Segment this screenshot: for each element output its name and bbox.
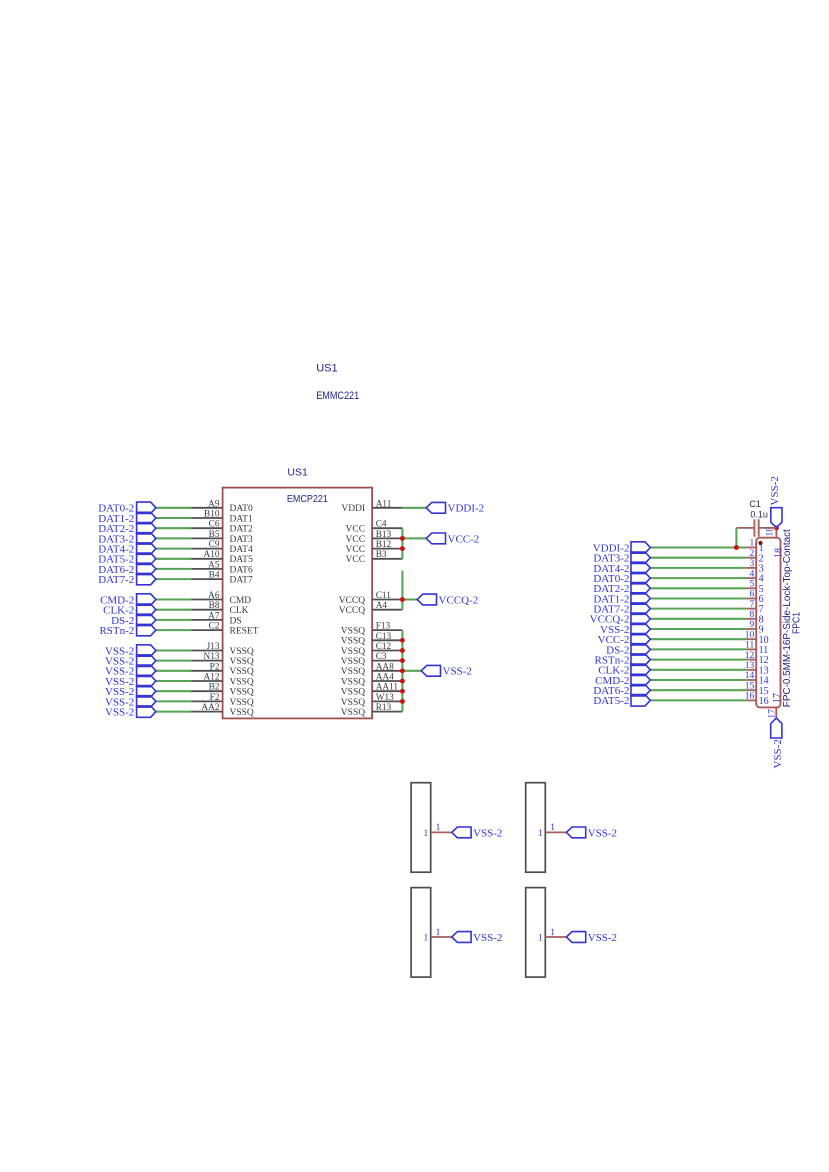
wire net DAT7-2 to pin B4 bbox=[156, 578, 192, 580]
net flag VCC-2 bbox=[426, 533, 445, 544]
svg-text:1: 1 bbox=[550, 928, 555, 938]
svg-text:0.1u: 0.1u bbox=[750, 510, 768, 520]
svg-text:VSSQ: VSSQ bbox=[341, 627, 365, 637]
svg-text:6: 6 bbox=[750, 590, 755, 600]
net flag DAT5-2 bbox=[137, 553, 156, 565]
mounting hole H3 body bbox=[411, 888, 431, 978]
svg-text:7: 7 bbox=[750, 600, 755, 610]
net flag DAT0-2 bbox=[631, 572, 650, 583]
svg-text:VSS-2: VSS-2 bbox=[588, 932, 617, 944]
svg-text:DAT7: DAT7 bbox=[230, 576, 253, 586]
wire net DAT6-2 to pin A5 bbox=[156, 568, 192, 570]
pin B3 (VCC) of US1 bbox=[372, 558, 402, 560]
pin 1 of H2 bbox=[545, 831, 566, 833]
wire net RSTn-2 to FPC1 pin 12 bbox=[650, 659, 746, 661]
svg-text:1: 1 bbox=[538, 829, 543, 839]
pin W13 (VSSQ) of US1 bbox=[372, 700, 402, 702]
pin 15 of FPC1 bbox=[746, 689, 756, 691]
pin A6 (CMD) of US1 bbox=[192, 599, 223, 601]
pin C2 (RESET) of US1 bbox=[192, 629, 223, 631]
svg-text:CMD: CMD bbox=[230, 596, 252, 606]
wire net RSTn-2 to pin C2 bbox=[156, 629, 192, 631]
net flag VSS-2 bbox=[452, 827, 471, 838]
pin B12 (VCC) of US1 bbox=[372, 548, 402, 550]
svg-text:B5: B5 bbox=[209, 530, 220, 540]
svg-text:VSS-2: VSS-2 bbox=[473, 827, 502, 839]
svg-text:9: 9 bbox=[750, 620, 755, 630]
pin B2 (VSSQ) of US1 bbox=[192, 690, 223, 692]
svg-text:VCCQ-2: VCCQ-2 bbox=[439, 594, 479, 606]
svg-text:VSSQ: VSSQ bbox=[230, 667, 254, 677]
svg-text:B13: B13 bbox=[376, 530, 392, 540]
svg-text:A11: A11 bbox=[376, 499, 392, 509]
svg-text:DAT2: DAT2 bbox=[230, 525, 253, 535]
net flag DAT7-2 bbox=[631, 603, 650, 614]
net flag DAT0-2 bbox=[137, 502, 156, 513]
net flag VDDI-2 bbox=[426, 502, 445, 513]
svg-text:VSSQ: VSSQ bbox=[341, 708, 365, 718]
svg-text:VSS-2: VSS-2 bbox=[105, 707, 134, 719]
pin B5 (DAT3) of US1 bbox=[192, 537, 223, 539]
svg-text:A9: A9 bbox=[208, 499, 220, 509]
pin 5 of FPC1 bbox=[746, 587, 756, 589]
svg-text:W13: W13 bbox=[376, 693, 394, 703]
svg-text:C11: C11 bbox=[376, 591, 392, 601]
svg-text:VCC-2: VCC-2 bbox=[448, 533, 480, 545]
svg-text:DAT3: DAT3 bbox=[230, 535, 253, 545]
svg-text:R13: R13 bbox=[376, 703, 392, 713]
pin B10 (DAT1) of US1 bbox=[192, 517, 223, 519]
wire net DAT2-2 to FPC1 pin 5 bbox=[650, 587, 746, 589]
svg-text:2: 2 bbox=[750, 549, 755, 559]
net flag VSS-2 bbox=[137, 696, 156, 707]
pin C13 (VSSQ) of US1 bbox=[372, 639, 402, 641]
svg-text:A10: A10 bbox=[203, 550, 219, 560]
svg-text:1: 1 bbox=[750, 539, 755, 549]
svg-text:FPC1: FPC1 bbox=[791, 612, 803, 634]
net flag DAT6-2 bbox=[631, 685, 650, 696]
wire net VCC-2 bbox=[402, 537, 426, 539]
svg-text:3: 3 bbox=[750, 559, 755, 569]
svg-text:C9: C9 bbox=[209, 540, 220, 550]
wire net DAT5-2 to pin A10 bbox=[156, 558, 192, 560]
svg-text:DAT4: DAT4 bbox=[230, 545, 253, 555]
wire net DAT4-2 to FPC1 pin 3 bbox=[650, 567, 746, 569]
junction on pin C11 bbox=[400, 597, 405, 602]
pin 10 of FPC1 bbox=[746, 638, 756, 640]
svg-text:VCC: VCC bbox=[346, 535, 366, 545]
net flag CMD-2 bbox=[631, 674, 650, 685]
svg-text:VSSQ: VSSQ bbox=[341, 698, 365, 708]
mounting hole H2 body bbox=[526, 783, 546, 873]
svg-text:N13: N13 bbox=[203, 652, 219, 662]
junction at pin 18 bbox=[774, 525, 779, 530]
net flag VCCQ-2 bbox=[631, 613, 650, 624]
svg-text:AA4: AA4 bbox=[376, 673, 394, 683]
pin B4 (DAT7) of US1 bbox=[192, 578, 223, 580]
svg-text:VCC: VCC bbox=[346, 525, 366, 535]
wire VCC vertical bus bbox=[401, 528, 403, 559]
pin 14 of FPC1 bbox=[746, 679, 756, 681]
svg-text:US1: US1 bbox=[287, 467, 308, 479]
pin A5 (DAT6) of US1 bbox=[192, 568, 223, 570]
net flag RSTn-2 bbox=[631, 654, 650, 665]
pin C4 (VCC) of US1 bbox=[372, 527, 402, 529]
svg-text:A7: A7 bbox=[208, 611, 220, 621]
svg-text:A12: A12 bbox=[203, 673, 219, 683]
wire net DS-2 to pin A7 bbox=[156, 619, 192, 621]
net flag VDDI-2 bbox=[631, 542, 650, 553]
junction VSSQ row 16 bbox=[400, 668, 405, 673]
svg-text:VSS-2: VSS-2 bbox=[769, 476, 781, 505]
svg-text:B2: B2 bbox=[209, 683, 220, 693]
svg-text:VSSQ: VSSQ bbox=[341, 647, 365, 657]
wire net VSS-2 to FPC1 pin 9 bbox=[650, 628, 746, 630]
net flag CLK-2 bbox=[631, 664, 650, 675]
svg-text:VSSQ: VSSQ bbox=[230, 688, 254, 698]
net flag VSS-2 bbox=[452, 932, 471, 943]
svg-text:B3: B3 bbox=[376, 550, 387, 560]
wire net CMD-2 to pin A6 bbox=[156, 598, 192, 600]
pin A10 (DAT5) of US1 bbox=[192, 558, 223, 560]
pin B8 (CLK) of US1 bbox=[192, 609, 223, 611]
svg-text:DAT6: DAT6 bbox=[230, 565, 253, 575]
svg-text:EMCP221: EMCP221 bbox=[287, 493, 328, 505]
svg-text:DAT0: DAT0 bbox=[230, 504, 253, 514]
svg-text:1: 1 bbox=[436, 928, 441, 938]
net flag DAT4-2 bbox=[137, 543, 156, 554]
net flag VSS-2 bbox=[566, 827, 585, 838]
pin P2 (VSSQ) of US1 bbox=[192, 670, 223, 672]
mounting hole H1 body bbox=[411, 783, 431, 873]
pin 2 of FPC1 bbox=[746, 557, 756, 559]
svg-text:VCC: VCC bbox=[346, 545, 366, 555]
junction C1/pin1 bbox=[734, 545, 739, 550]
pin AA11 (VSSQ) of US1 bbox=[372, 690, 402, 692]
svg-text:VSS-2: VSS-2 bbox=[473, 932, 502, 944]
pin 6 of FPC1 bbox=[746, 598, 756, 600]
wire VCCQ vertical bbox=[401, 571, 403, 610]
wire net DAT7-2 to FPC1 pin 7 bbox=[650, 608, 746, 610]
net flag VSS-2 bbox=[137, 655, 156, 667]
wire net VSS-2 to pin P2 bbox=[156, 670, 192, 672]
svg-text:DAT5: DAT5 bbox=[230, 555, 253, 565]
svg-text:A4: A4 bbox=[376, 601, 388, 611]
pin 13 of FPC1 bbox=[746, 669, 756, 671]
svg-text:DAT1: DAT1 bbox=[230, 514, 253, 524]
pin A12 (VSSQ) of US1 bbox=[192, 680, 223, 682]
net flag VSS-2 bbox=[631, 623, 650, 634]
pin F13 (VSSQ) of US1 bbox=[372, 629, 402, 631]
svg-text:16: 16 bbox=[759, 696, 769, 707]
pin J13 (VSSQ) of US1 bbox=[192, 650, 223, 652]
wire net DAT1-2 to pin B10 bbox=[156, 517, 192, 519]
svg-text:A6: A6 bbox=[208, 591, 220, 601]
svg-text:A5: A5 bbox=[208, 560, 220, 570]
wire net CMD-2 to FPC1 pin 14 bbox=[650, 679, 746, 681]
pin 1 of FPC1 bbox=[746, 547, 756, 549]
svg-text:VDDI-2: VDDI-2 bbox=[448, 503, 485, 515]
svg-text:VSS-2: VSS-2 bbox=[772, 739, 784, 768]
pin C3 (VSSQ) of US1 bbox=[372, 660, 402, 662]
svg-text:VSS-2: VSS-2 bbox=[588, 827, 617, 839]
wire net VCCQ-2 bbox=[402, 598, 417, 600]
wire net DAT5-2 to FPC1 pin 16 bbox=[650, 699, 746, 701]
net flag VSS-2 bbox=[137, 686, 156, 697]
svg-text:VSS-2: VSS-2 bbox=[443, 666, 472, 678]
net flag VCC-2 bbox=[631, 634, 650, 645]
svg-text:F13: F13 bbox=[376, 622, 391, 632]
svg-text:8: 8 bbox=[750, 610, 755, 620]
wire net VSS-2 to pin N13 bbox=[156, 660, 192, 662]
wire net DAT4-2 to pin C9 bbox=[156, 548, 192, 550]
net flag DAT1-2 bbox=[137, 512, 156, 523]
wire net VCC-2 to FPC1 pin 10 bbox=[650, 638, 746, 640]
svg-text:VCCQ: VCCQ bbox=[339, 606, 366, 616]
svg-text:AA11: AA11 bbox=[376, 683, 399, 693]
wire net VCCQ-2 to FPC1 pin 8 bbox=[650, 618, 746, 620]
svg-text:RESET: RESET bbox=[230, 627, 259, 637]
pin 9 of FPC1 bbox=[746, 628, 756, 630]
svg-text:VCC: VCC bbox=[346, 555, 366, 565]
net flag VSS-2 bbox=[566, 932, 585, 943]
wire net DAT2-2 to pin C6 bbox=[156, 527, 192, 529]
mounting hole H4 body bbox=[526, 888, 546, 978]
pin 1 of H3 bbox=[431, 936, 452, 938]
pin 8 of FPC1 bbox=[746, 618, 756, 620]
net flag VSS-2 bbox=[421, 665, 440, 676]
pin A9 (DAT0) of US1 bbox=[192, 507, 223, 509]
svg-text:VSSQ: VSSQ bbox=[230, 647, 254, 657]
IC US1 EMCP221 body bbox=[223, 488, 373, 719]
wire net VSS-2 to pin J13 bbox=[156, 649, 192, 651]
wire net DAT1-2 to FPC1 pin 6 bbox=[650, 597, 746, 599]
net flag CMD-2 bbox=[137, 594, 156, 605]
pin F2 (VSSQ) of US1 bbox=[192, 700, 223, 702]
net flag DAT3-2 bbox=[137, 533, 156, 544]
svg-text:5: 5 bbox=[750, 580, 755, 590]
svg-text:AA2: AA2 bbox=[201, 703, 219, 713]
wire net DAT3-2 to pin B5 bbox=[156, 537, 192, 539]
wire net CLK-2 to pin B8 bbox=[156, 609, 192, 611]
wire net DS-2 to FPC1 pin 11 bbox=[650, 648, 746, 650]
wire net VSS-2 bbox=[402, 670, 421, 672]
pin C6 (DAT2) of US1 bbox=[192, 527, 223, 529]
svg-text:1: 1 bbox=[436, 823, 441, 833]
net flag VCCQ-2 bbox=[417, 594, 436, 605]
wire net VDDI-2 to FPC1 pin 1 bbox=[650, 546, 746, 548]
pin AA4 (VSSQ) of US1 bbox=[372, 680, 402, 682]
svg-text:1: 1 bbox=[538, 934, 543, 944]
FPC1 pin-1 indicator dot bbox=[758, 541, 762, 545]
svg-text:CLK: CLK bbox=[230, 606, 249, 616]
svg-text:4: 4 bbox=[750, 569, 755, 579]
svg-text:F2: F2 bbox=[210, 693, 220, 703]
net flag DAT5-2 bbox=[631, 695, 650, 707]
svg-text:B12: B12 bbox=[376, 540, 392, 550]
svg-text:DAT5-2: DAT5-2 bbox=[593, 695, 629, 707]
junction on pin B13 bbox=[400, 536, 405, 541]
pin A11 (VDDI) of US1 bbox=[372, 507, 402, 509]
net flag VSS-2 (top) bbox=[771, 508, 782, 528]
wire net DAT0-2 to FPC1 pin 4 bbox=[650, 577, 746, 579]
pin C9 (DAT4) of US1 bbox=[192, 548, 223, 550]
net flag DAT6-2 bbox=[137, 563, 156, 574]
pin 1 of H1 bbox=[431, 831, 452, 833]
wire net VSS-2 to pin F2 bbox=[156, 700, 192, 702]
wire net DAT6-2 to FPC1 pin 15 bbox=[650, 689, 746, 691]
svg-text:B8: B8 bbox=[209, 601, 220, 611]
svg-text:C12: C12 bbox=[376, 642, 392, 652]
capacitor C1 plates bbox=[753, 519, 755, 536]
net flag DS-2 bbox=[137, 614, 156, 625]
wire net CLK-2 to FPC1 pin 13 bbox=[650, 669, 746, 671]
pin 1 of H4 bbox=[545, 936, 566, 938]
net flag DAT4-2 bbox=[631, 562, 650, 573]
svg-text:VSSQ: VSSQ bbox=[341, 667, 365, 677]
pin R13 (VSSQ) of US1 bbox=[372, 711, 402, 713]
junction VSSQ row 15 bbox=[400, 658, 405, 663]
svg-text:B4: B4 bbox=[209, 571, 220, 581]
net flag DS-2 bbox=[631, 644, 650, 655]
pin AA2 (VSSQ) of US1 bbox=[192, 711, 223, 713]
svg-text:DS: DS bbox=[230, 616, 242, 626]
pin A4 (VCCQ) of US1 bbox=[372, 609, 402, 611]
pin 7 of FPC1 bbox=[746, 608, 756, 610]
pin C12 (VSSQ) of US1 bbox=[372, 650, 402, 652]
net flag DAT1-2 bbox=[631, 593, 650, 604]
svg-text:C2: C2 bbox=[209, 622, 220, 632]
svg-text:RSTn-2: RSTn-2 bbox=[99, 625, 134, 637]
connector FPC1 body bbox=[756, 538, 780, 708]
wire VSSQ vertical bus bbox=[401, 630, 403, 712]
junction VSSQ row 13 bbox=[400, 638, 405, 643]
junction VSSQ row 14 bbox=[400, 648, 405, 653]
svg-text:B10: B10 bbox=[204, 510, 220, 520]
svg-text:DAT7-2: DAT7-2 bbox=[98, 574, 134, 586]
svg-text:C13: C13 bbox=[376, 632, 392, 642]
junction VSSQ row 19 bbox=[400, 699, 405, 704]
pin 16 of FPC1 bbox=[746, 699, 756, 701]
svg-text:C4: C4 bbox=[376, 520, 387, 530]
svg-text:C1: C1 bbox=[749, 499, 761, 509]
wire net VSS-2 to pin AA2 bbox=[156, 711, 192, 713]
pin 12 of FPC1 bbox=[746, 659, 756, 661]
wire net VSS-2 to pin A12 bbox=[156, 680, 192, 682]
svg-text:1: 1 bbox=[424, 934, 429, 944]
pin 11 of FPC1 bbox=[746, 648, 756, 650]
junction VSSQ row 17 bbox=[400, 679, 405, 684]
pin A7 (DS) of US1 bbox=[192, 619, 223, 621]
svg-text:VSSQ: VSSQ bbox=[341, 677, 365, 687]
svg-text:1: 1 bbox=[550, 823, 555, 833]
svg-text:VSSQ: VSSQ bbox=[230, 657, 254, 667]
net flag RSTn-2 bbox=[137, 624, 156, 635]
svg-text:11: 11 bbox=[745, 641, 754, 651]
svg-text:VSSQ: VSSQ bbox=[341, 657, 365, 667]
svg-text:C6: C6 bbox=[209, 520, 220, 530]
wire net VSS-2 to pin B2 bbox=[156, 690, 192, 692]
svg-text:VSSQ: VSSQ bbox=[230, 677, 254, 687]
wire C1 to FPC1 pin 1 bbox=[735, 528, 737, 548]
wire net DAT3-2 to FPC1 pin 2 bbox=[650, 557, 746, 559]
net flag DAT2-2 bbox=[631, 583, 650, 594]
svg-text:VSSQ: VSSQ bbox=[341, 637, 365, 647]
net flag DAT2-2 bbox=[137, 523, 156, 534]
svg-text:VSSQ: VSSQ bbox=[230, 708, 254, 718]
svg-text:VSSQ: VSSQ bbox=[230, 698, 254, 708]
capacitor C1 leads bbox=[736, 527, 754, 529]
svg-text:P2: P2 bbox=[210, 662, 220, 672]
svg-text:EMMC221: EMMC221 bbox=[316, 390, 359, 402]
pin 4 of FPC1 bbox=[746, 577, 756, 579]
svg-text:1: 1 bbox=[424, 829, 429, 839]
net flag DAT3-2 bbox=[631, 552, 650, 563]
pin N13 (VSSQ) of US1 bbox=[192, 660, 223, 662]
pin B13 (VCC) of US1 bbox=[372, 537, 402, 539]
svg-text:VDDI: VDDI bbox=[341, 504, 365, 514]
pin 18 of FPC1 bbox=[775, 528, 777, 538]
wire net DAT0-2 to pin A9 bbox=[156, 507, 192, 509]
pin 3 of FPC1 bbox=[746, 567, 756, 569]
net flag VSS-2 bbox=[137, 665, 156, 676]
net flag CLK-2 bbox=[137, 604, 156, 615]
svg-text:J13: J13 bbox=[207, 642, 220, 652]
pin AA8 (VSSQ) of US1 bbox=[372, 670, 402, 672]
net flag VSS-2 bbox=[137, 706, 156, 717]
svg-text:VSSQ: VSSQ bbox=[341, 688, 365, 698]
net flag DAT7-2 bbox=[137, 573, 156, 584]
svg-text:AA8: AA8 bbox=[376, 662, 394, 672]
net flag VSS-2 bbox=[137, 675, 156, 686]
pin 17 of FPC1 bbox=[775, 707, 777, 718]
net flag VSS-2 (bottom) bbox=[771, 718, 782, 738]
svg-text:US1: US1 bbox=[316, 363, 337, 375]
svg-text:VCCQ: VCCQ bbox=[339, 596, 366, 606]
svg-text:C3: C3 bbox=[376, 652, 387, 662]
wire net VDDI-2 bbox=[402, 507, 426, 509]
net flag VSS-2 bbox=[137, 645, 156, 656]
junction VSSQ row 18 bbox=[400, 689, 405, 694]
pin C11 (VCCQ) of US1 bbox=[372, 599, 402, 601]
junction on pin B12 bbox=[400, 546, 405, 551]
